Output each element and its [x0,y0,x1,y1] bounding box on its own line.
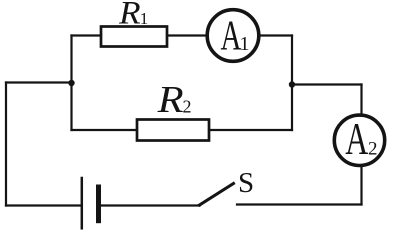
wire R2 to right vertical [209,129,292,131]
svg-text:1: 1 [140,9,149,28]
node junction right [289,81,295,87]
ammeter A1 [207,10,259,62]
wire left outer vertical [5,83,7,206]
resistor R2 [137,120,209,141]
switch S blade [200,184,234,206]
wire R2 branch: junction to R2 [72,129,138,131]
wire left junction horizontal [6,81,72,83]
wire branch to A2 [292,83,362,85]
battery negative plate (short thick) [96,187,101,221]
wire top branch: left corner to R1 [72,34,102,36]
svg-text:1: 1 [240,33,250,55]
wire A1 to top-right corner [260,34,293,36]
wire battery to switch [101,204,200,206]
svg-text:R: R [156,79,183,121]
wire R1 to A1 [167,34,207,36]
ammeter A2 [334,115,384,165]
svg-text:2: 2 [183,97,192,117]
svg-text:S: S [238,167,254,199]
wire left inner vertical [70,36,72,131]
wire bottom right to switch [237,203,362,205]
svg-text:A: A [345,114,368,164]
wire A2 bottom lead [360,168,362,205]
resistor R1 [101,27,167,47]
svg-text:R: R [118,0,141,32]
wire right vertical (top corner down to R2 branch) [291,36,293,131]
battery positive plate (long) [81,178,84,228]
wire A2 top lead [360,85,362,115]
node junction left [68,80,74,86]
wire bottom left to battery [6,204,81,206]
svg-text:2: 2 [368,139,378,160]
